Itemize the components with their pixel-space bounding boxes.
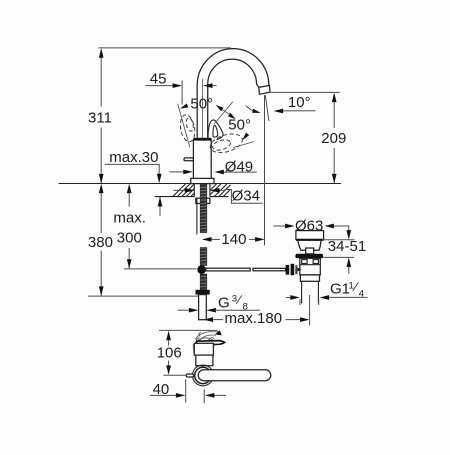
svg-text:Ø34: Ø34	[232, 187, 260, 204]
svg-text:Ø63: Ø63	[295, 217, 323, 234]
svg-text:380: 380	[88, 234, 113, 251]
svg-text:50°: 50°	[190, 95, 213, 112]
svg-text:45: 45	[150, 71, 167, 88]
svg-text:10°: 10°	[288, 94, 311, 111]
svg-text:140: 140	[221, 231, 246, 248]
svg-text:G: G	[218, 294, 230, 311]
svg-text:311: 311	[88, 110, 112, 127]
svg-text:Ø49: Ø49	[225, 158, 253, 175]
svg-text:G1: G1	[330, 281, 350, 298]
svg-text:34-51: 34-51	[328, 238, 366, 255]
svg-text:40: 40	[153, 381, 170, 398]
svg-text:max.30: max.30	[109, 149, 158, 166]
svg-text:106: 106	[157, 345, 182, 362]
svg-text:300: 300	[117, 230, 142, 247]
svg-text:max.: max.	[113, 210, 146, 227]
svg-text:max.180: max.180	[225, 310, 283, 327]
svg-text:4: 4	[359, 288, 364, 299]
svg-text:209: 209	[321, 130, 346, 147]
svg-text:50°: 50°	[228, 117, 251, 134]
